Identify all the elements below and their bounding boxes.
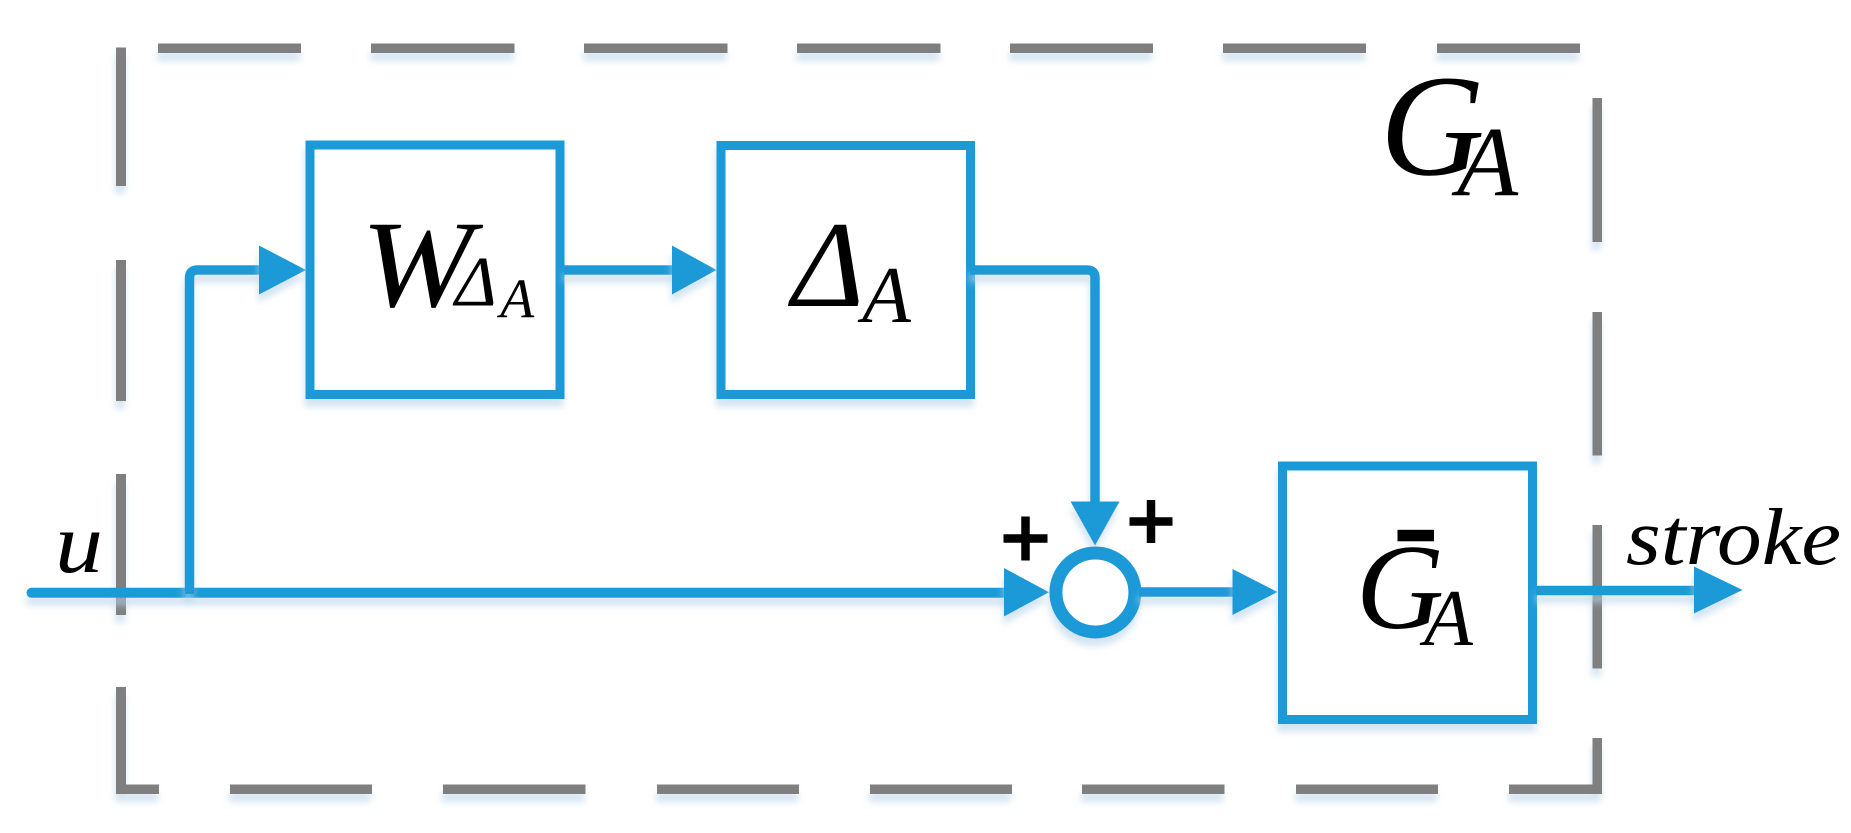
- svg-text:Δ: Δ: [787, 196, 864, 333]
- arrowhead down into summing junction: [1071, 502, 1120, 546]
- label Delta_A inside Delta block: [787, 196, 912, 340]
- label W_Delta_A inside W block: [361, 196, 535, 333]
- svg-text:A: A: [857, 252, 912, 340]
- label Gbar_A inside Gbar block: [1356, 520, 1474, 663]
- arrowhead into W block: [259, 246, 306, 295]
- wire: Delta block down to summing junction: [970, 270, 1095, 507]
- label G_A (top right, system name): [1380, 47, 1519, 218]
- block Delta_A: [721, 146, 971, 395]
- arrowhead into summing junction from u line: [1004, 568, 1049, 617]
- dashed boundary box of system G_A (gray dashes): [116, 44, 1602, 795]
- plus sign left of summing junction: [1004, 517, 1048, 561]
- wire: main input line u: [32, 588, 1008, 598]
- arrowhead of output (stroke): [1694, 567, 1743, 614]
- arrowhead into Gbar block: [1233, 569, 1278, 615]
- block Gbar_A: [1283, 466, 1533, 720]
- svg-text:A: A: [496, 269, 535, 331]
- svg-text:A: A: [1419, 575, 1474, 663]
- arrowhead into Delta block: [672, 246, 717, 295]
- wire: branch up from u line to W block: [190, 270, 262, 594]
- svg-text:stroke: stroke: [1626, 494, 1841, 582]
- svg-text:u: u: [55, 495, 103, 591]
- summing junction circle: [1056, 553, 1135, 632]
- svg-text:Δ: Δ: [452, 244, 497, 322]
- block W_DeltaA: [310, 145, 560, 395]
- wire: summing junction to Gbar block: [1139, 587, 1236, 597]
- wire: Gbar block output: [1536, 586, 1700, 596]
- wire: W block to Delta block: [564, 265, 678, 275]
- svg-text:A: A: [1451, 106, 1519, 217]
- plus sign right (above summing junction): [1130, 500, 1173, 543]
